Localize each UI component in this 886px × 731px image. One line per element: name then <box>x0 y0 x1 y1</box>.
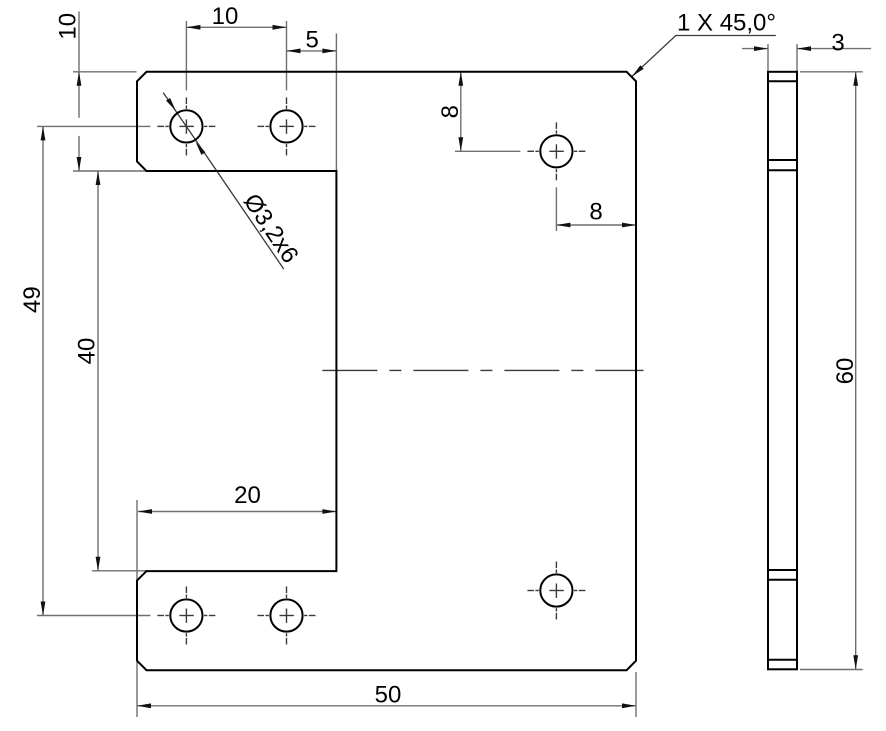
svg-text:8: 8 <box>589 199 602 226</box>
svg-text:50: 50 <box>375 682 402 709</box>
svg-text:10: 10 <box>212 3 239 30</box>
svg-text:40: 40 <box>73 338 100 365</box>
svg-text:1 X 45,0°: 1 X 45,0° <box>677 9 776 36</box>
svg-text:20: 20 <box>234 482 261 509</box>
svg-text:10: 10 <box>55 13 82 40</box>
svg-text:3: 3 <box>831 30 844 57</box>
svg-text:8: 8 <box>437 105 464 118</box>
svg-text:49: 49 <box>19 286 46 313</box>
svg-text:5: 5 <box>306 26 319 53</box>
svg-text:60: 60 <box>832 358 859 385</box>
